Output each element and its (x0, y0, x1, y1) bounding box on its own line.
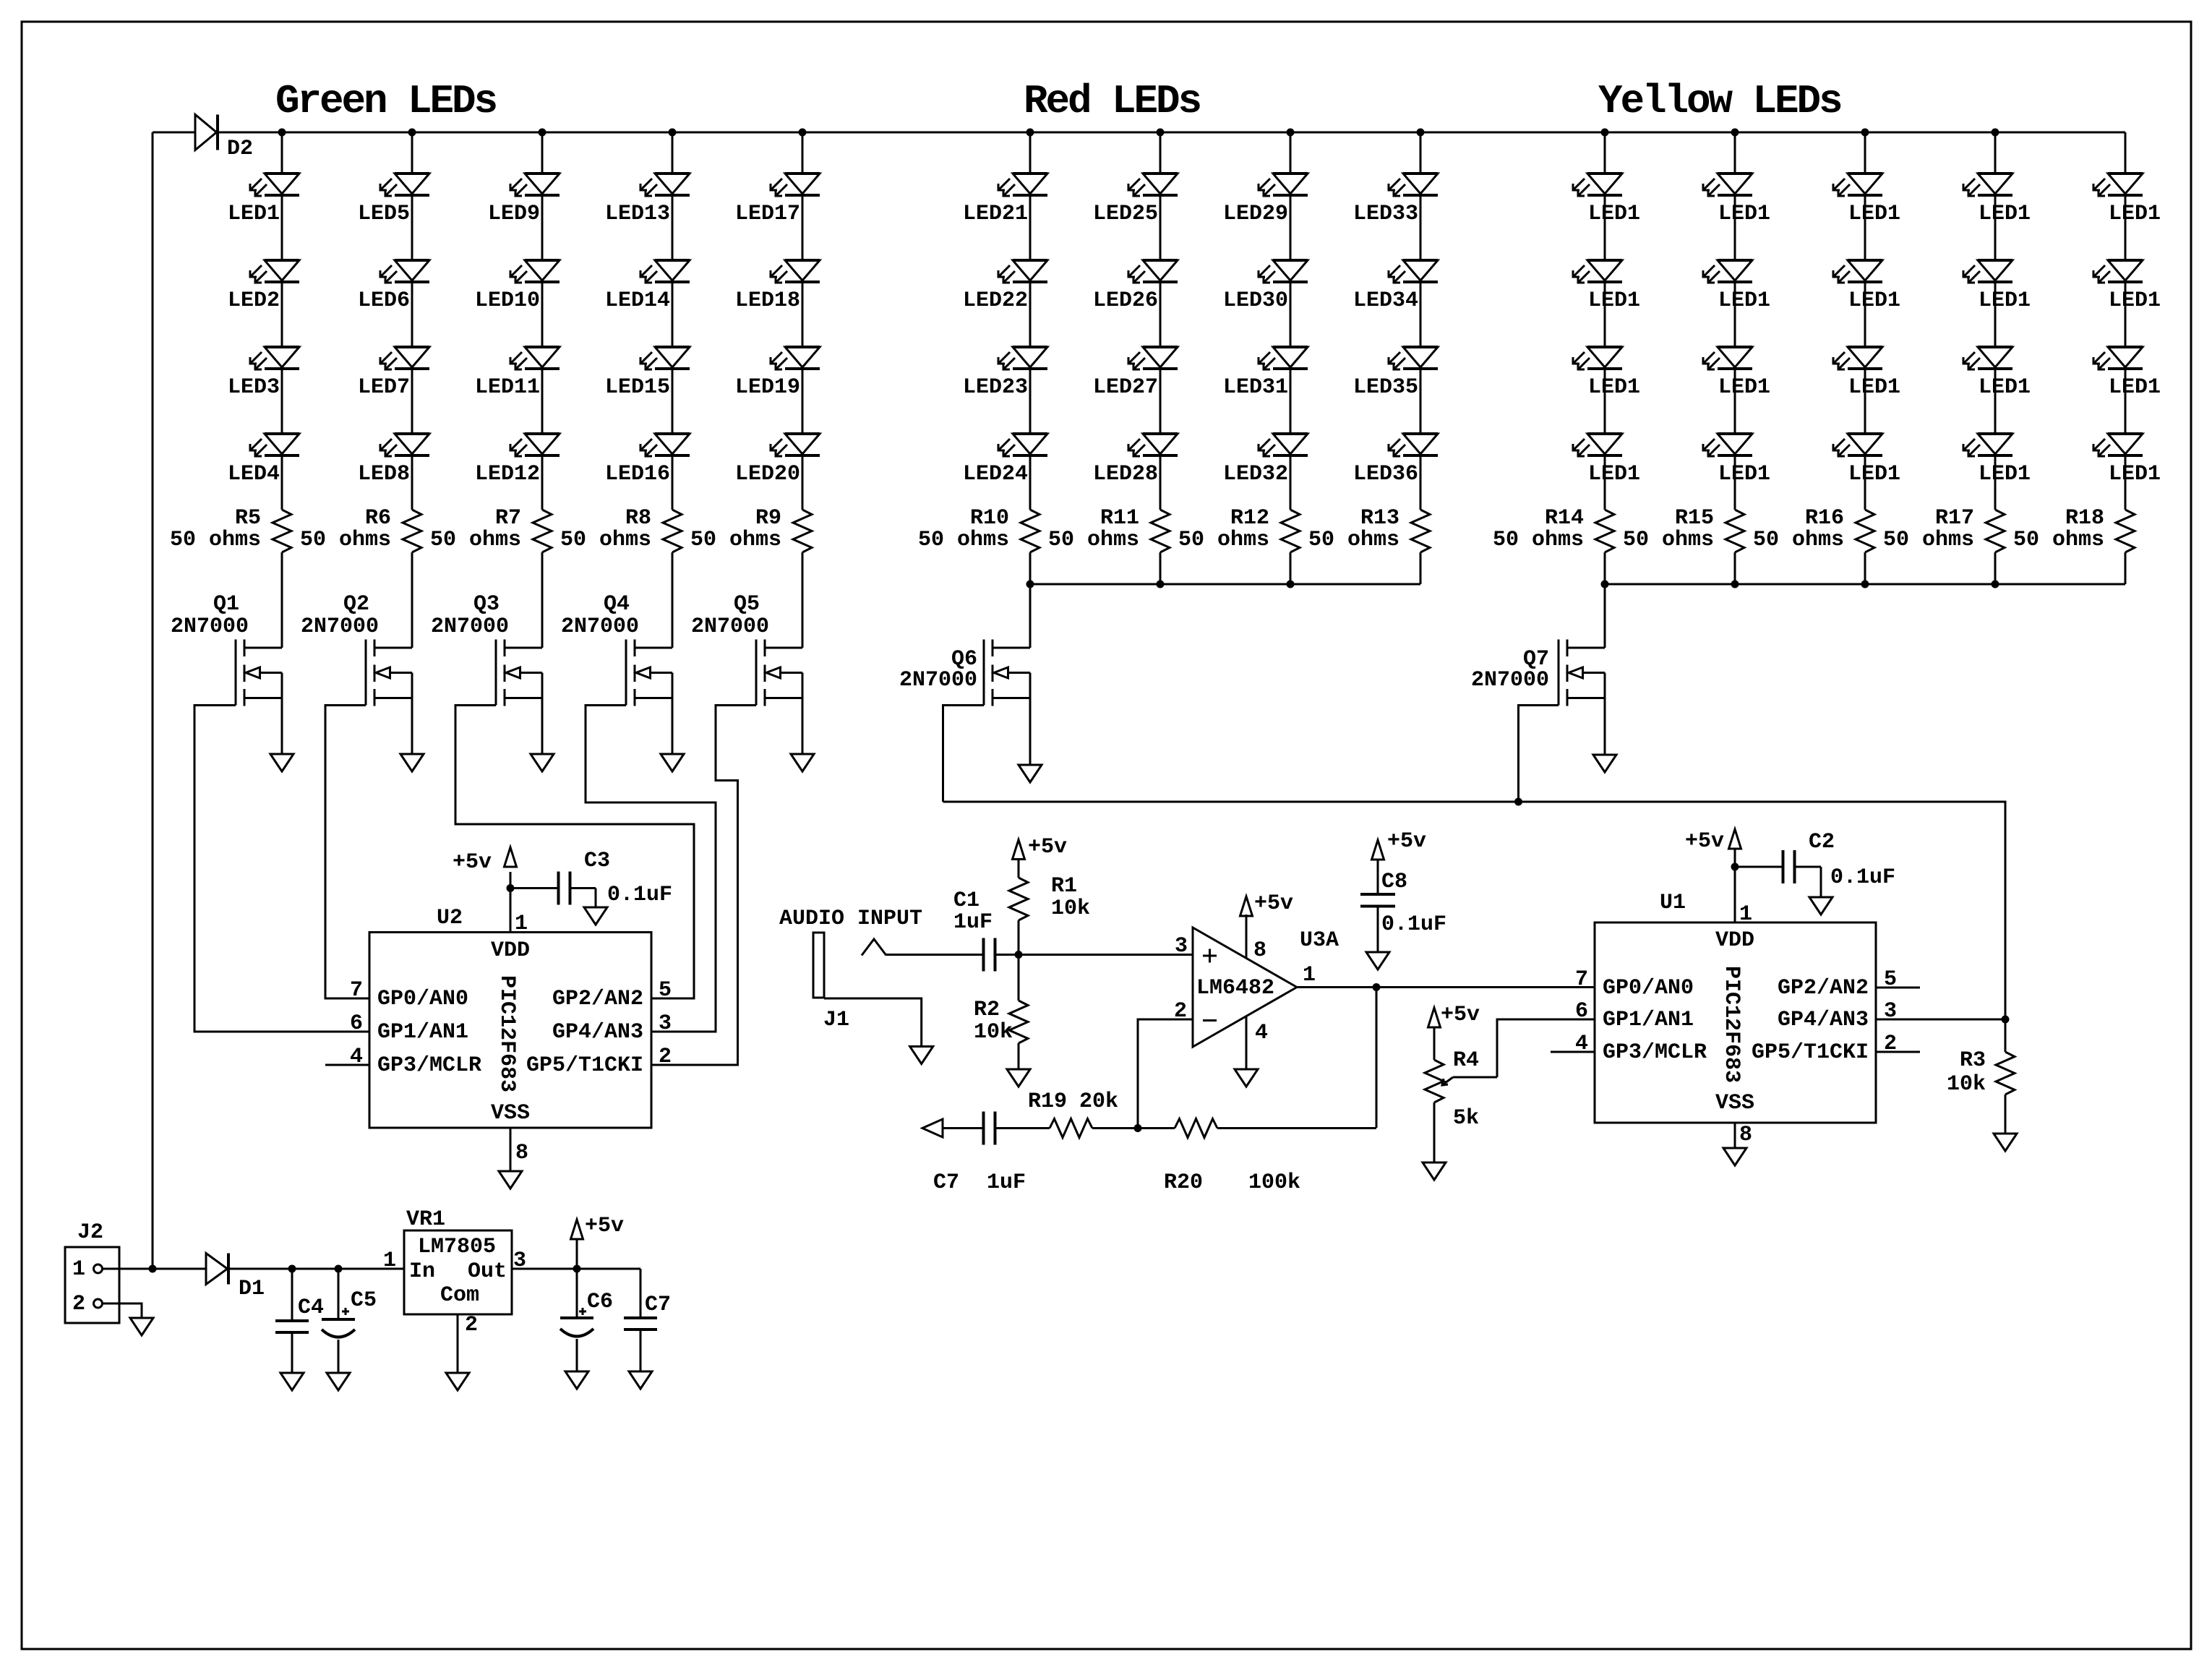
svg-text:50 ohms: 50 ohms (430, 528, 521, 552)
svg-text:LED1: LED1 (1848, 202, 1900, 226)
LED LED1 (1573, 260, 1640, 313)
LED LED1 (1833, 347, 1900, 400)
junction dot U1 VDD (1731, 863, 1739, 871)
ground under C6 (565, 1371, 588, 1389)
LED LED27 (1093, 347, 1178, 400)
resistor R9 (690, 506, 812, 552)
LED LED34 (1353, 260, 1438, 313)
svg-text:2: 2 (659, 1045, 672, 1069)
svg-text:GP5/T1CKI: GP5/T1CKI (1752, 1040, 1869, 1065)
svg-text:LED22: LED22 (963, 288, 1028, 313)
svg-text:Com: Com (440, 1283, 479, 1308)
svg-text:GP2/AN2: GP2/AN2 (1778, 976, 1869, 1001)
svg-text:R19: R19 (1028, 1089, 1067, 1114)
ground under Q2 (400, 754, 424, 771)
svg-text:2N7000: 2N7000 (691, 615, 769, 639)
svg-text:3: 3 (659, 1011, 672, 1036)
svg-text:R11: R11 (1100, 506, 1139, 531)
ground under Q4 (661, 754, 684, 771)
LED LED1 (1703, 347, 1770, 400)
ground under Q6 (1019, 765, 1042, 782)
svg-text:LED34: LED34 (1353, 288, 1418, 313)
wire yellow LED column 1 (1604, 132, 1606, 584)
resistor R17 (1883, 506, 2005, 552)
svg-text:R7: R7 (495, 506, 521, 531)
resistor R10 (918, 506, 1039, 552)
svg-text:50 ohms: 50 ohms (2013, 528, 2104, 552)
ground under U2 (499, 1171, 522, 1189)
svg-text:R12: R12 (1230, 506, 1269, 531)
svg-text:1: 1 (383, 1249, 396, 1273)
svg-text:LED1: LED1 (1848, 375, 1900, 400)
resistor R12 (1178, 506, 1300, 552)
svg-text:LED20: LED20 (735, 462, 800, 487)
svg-text:LED31: LED31 (1223, 375, 1288, 400)
LED LED9 (488, 174, 560, 226)
wire VR1 Out (512, 1268, 640, 1270)
svg-text:LED1: LED1 (1588, 288, 1640, 313)
LED LED1 (1833, 174, 1900, 226)
transistor Q4 2N7000 (561, 592, 672, 754)
svg-text:R13: R13 (1360, 506, 1399, 531)
net arrow C7 feedback (922, 1119, 943, 1137)
svg-text:LED21: LED21 (963, 202, 1028, 226)
wire red LED column 1 (1029, 132, 1032, 584)
wire green LED column 5 (802, 132, 804, 648)
resistor R15 (1623, 506, 1744, 552)
svg-text:LED10: LED10 (475, 288, 540, 313)
svg-text:LED3: LED3 (228, 375, 280, 400)
wire Q1 gate to U2 pin 6 (194, 706, 369, 1032)
svg-text:2N7000: 2N7000 (1471, 668, 1549, 693)
svg-text:PIC12F683: PIC12F683 (1719, 966, 1744, 1083)
svg-text:100k: 100k (1248, 1170, 1300, 1195)
wire U2 pin 8 VSS (510, 1128, 512, 1171)
svg-text:LED26: LED26 (1093, 288, 1158, 313)
wire C1 to op-amp pin 3 (995, 954, 1193, 956)
svg-text:8: 8 (1253, 938, 1266, 963)
wire op-amp output to U1 pin 7 (1297, 986, 1595, 988)
svg-text:R9: R9 (755, 506, 781, 531)
svg-text:LED1: LED1 (1979, 375, 2031, 400)
LED LED3 (228, 347, 299, 400)
svg-text:+5v: +5v (453, 850, 492, 875)
svg-text:LED1: LED1 (1588, 375, 1640, 400)
svg-text:Q1: Q1 (213, 592, 239, 617)
svg-text:GP2/AN2: GP2/AN2 (552, 987, 643, 1011)
svg-text:R4: R4 (1453, 1048, 1479, 1073)
svg-text:5k: 5k (1453, 1106, 1479, 1131)
LED LED1 (1833, 260, 1900, 313)
LED LED36 (1353, 434, 1438, 487)
LED LED35 (1353, 347, 1438, 400)
svg-text:GP3/MCLR: GP3/MCLR (377, 1053, 481, 1078)
LED LED1 (1703, 260, 1770, 313)
svg-text:LED33: LED33 (1353, 202, 1418, 226)
svg-text:LED1: LED1 (1848, 288, 1900, 313)
wire U1 pin 8 VSS (1734, 1123, 1736, 1148)
LED LED22 (963, 260, 1047, 313)
wire red LED column 3 (1290, 132, 1292, 584)
LED LED6 (358, 260, 429, 313)
svg-text:7: 7 (350, 978, 363, 1003)
svg-text:1: 1 (72, 1257, 85, 1282)
junction dots on top bus (278, 129, 1999, 137)
LED LED25 (1093, 174, 1178, 226)
svg-text:GP1/AN1: GP1/AN1 (1603, 1008, 1694, 1032)
resistor R14 (1493, 506, 1614, 552)
svg-text:LED11: LED11 (475, 375, 540, 400)
svg-text:2N7000: 2N7000 (171, 615, 249, 639)
connector J2 (65, 1220, 119, 1323)
junction dot op-amp output (1373, 983, 1381, 991)
wire yellow LED column 4 (1994, 132, 1997, 584)
svg-text:LED1: LED1 (1979, 288, 2031, 313)
wire D1 to VR1 In (228, 1268, 404, 1270)
svg-text:LED1: LED1 (2109, 288, 2161, 313)
svg-text:In: In (409, 1259, 435, 1284)
svg-text:D2: D2 (227, 137, 253, 161)
svg-text:LED12: LED12 (475, 462, 540, 487)
svg-text:LED23: LED23 (963, 375, 1028, 400)
svg-text:LED1: LED1 (1718, 375, 1770, 400)
svg-text:2N7000: 2N7000 (561, 615, 639, 639)
ground under C7 (629, 1371, 652, 1389)
svg-text:U3A: U3A (1300, 928, 1339, 953)
wire op-amp feedback drop (1376, 988, 1378, 1129)
resistor R16 (1753, 506, 1874, 552)
svg-text:LED1: LED1 (1588, 462, 1640, 487)
LED LED33 (1353, 174, 1438, 226)
svg-text:2N7000: 2N7000 (431, 615, 509, 639)
LED LED2 (228, 260, 299, 313)
LED LED26 (1093, 260, 1178, 313)
svg-text:U1: U1 (1660, 891, 1686, 915)
svg-text:1: 1 (1303, 963, 1316, 988)
svg-text:VDD: VDD (1715, 928, 1754, 953)
resistor R6 (300, 506, 421, 552)
svg-text:Q3: Q3 (473, 592, 500, 617)
svg-text:LED1: LED1 (1979, 202, 2031, 226)
svg-text:LED1: LED1 (1588, 202, 1640, 226)
ground under C2 (1809, 897, 1832, 915)
svg-text:LED1: LED1 (1848, 462, 1900, 487)
resistor R19 20k (1028, 1089, 1118, 1138)
ground under U1 (1723, 1148, 1746, 1165)
LED LED19 (735, 347, 820, 400)
svg-text:20k: 20k (1079, 1089, 1118, 1114)
junction dot feedback (1134, 1124, 1142, 1132)
svg-text:+5v: +5v (1441, 1003, 1480, 1027)
wire Q4 gate to U2 pin 3 (586, 706, 716, 1032)
svg-text:LED25: LED25 (1093, 202, 1158, 226)
junction dot Q7 gate (1514, 798, 1522, 806)
LED LED28 (1093, 434, 1178, 487)
LED LED8 (358, 434, 429, 487)
LED LED1 (228, 174, 299, 226)
svg-text:1uF: 1uF (953, 910, 993, 935)
ground under Q5 (791, 754, 814, 771)
svg-text:LED14: LED14 (605, 288, 670, 313)
resistor R11 (1048, 506, 1170, 552)
svg-text:50 ohms: 50 ohms (918, 528, 1009, 552)
ground under R4 (1423, 1162, 1446, 1180)
transistor Q5 2N7000 (691, 592, 802, 754)
svg-text:2N7000: 2N7000 (301, 615, 379, 639)
svg-text:4: 4 (1255, 1021, 1268, 1045)
wire junction to op-amp pin 2 (1138, 1019, 1193, 1129)
resistor R20 100k (1164, 1119, 1300, 1196)
LED LED4 (228, 434, 299, 487)
wire U2 pin 4 stub (325, 1064, 369, 1066)
wire Q3 gate to U2 pin 5 (455, 706, 694, 999)
svg-text:C8: C8 (1381, 870, 1407, 894)
junction dot left bus at J2 (149, 1265, 157, 1273)
wire U1 pin 3 (1876, 1019, 2005, 1021)
svg-text:GP0/AN0: GP0/AN0 (377, 987, 468, 1011)
wire Q5 gate to U2 pin 2 (651, 706, 756, 1066)
ground under VR1 (446, 1373, 469, 1390)
svg-text:+5v: +5v (1254, 891, 1293, 916)
wire green LED column 2 (411, 132, 413, 648)
wire red LED column 2 (1159, 132, 1162, 584)
wire C7 to R19 (995, 1127, 1050, 1129)
wire Q2 gate to U2 pin 7 (325, 706, 369, 999)
svg-text:LED36: LED36 (1353, 462, 1418, 487)
svg-text:2: 2 (465, 1313, 478, 1337)
svg-text:0.1uF: 0.1uF (1381, 912, 1446, 937)
jack J1 (813, 933, 922, 1047)
svg-text:LED1: LED1 (228, 202, 280, 226)
wire top supply bus (153, 132, 2125, 134)
svg-text:R16: R16 (1805, 506, 1844, 531)
svg-text:C2: C2 (1809, 830, 1835, 855)
LED LED16 (605, 434, 690, 487)
svg-text:LED7: LED7 (358, 375, 410, 400)
wire yellow source bus (1605, 583, 2125, 586)
svg-text:C1: C1 (953, 888, 979, 913)
ground under op-amp (1235, 1069, 1258, 1087)
capacitor C6 (polarized) (560, 1269, 613, 1371)
svg-text:1uF: 1uF (987, 1170, 1026, 1195)
junction dot C1 R1 R2 (1015, 951, 1023, 959)
svg-text:VSS: VSS (1715, 1091, 1754, 1116)
svg-text:LED24: LED24 (963, 462, 1028, 487)
LED LED18 (735, 260, 820, 313)
svg-text:10k: 10k (974, 1020, 1013, 1045)
svg-text:4: 4 (350, 1045, 363, 1069)
resistor R2 10k (974, 955, 1028, 1070)
wire green LED column 1 (281, 132, 283, 648)
wire audio signal to C1 (886, 954, 984, 956)
svg-text:50 ohms: 50 ohms (1623, 528, 1714, 552)
junction dot U2 VDD (507, 884, 515, 892)
IC U2 PIC12F683 box (369, 906, 651, 1128)
svg-text:R2: R2 (974, 998, 1000, 1022)
op-amp pin numbers (1174, 934, 1316, 1045)
junction dot +5v out (573, 1265, 581, 1273)
svg-text:LED1: LED1 (2109, 202, 2161, 226)
LED LED1 (1963, 347, 2031, 400)
+5v at VR1 out (571, 1214, 625, 1269)
wire op-amp pin 8 to +5v (1246, 915, 1248, 958)
svg-text:R15: R15 (1675, 506, 1714, 531)
svg-text:LED8: LED8 (358, 462, 410, 487)
svg-text:GP4/AN3: GP4/AN3 (1778, 1008, 1869, 1032)
svg-text:C3: C3 (584, 849, 610, 873)
svg-text:LED15: LED15 (605, 375, 670, 400)
capacitor C4 (275, 1269, 324, 1373)
capacitor C3 0.1uF (510, 849, 672, 907)
LED LED11 (475, 347, 560, 400)
svg-text:50 ohms: 50 ohms (1178, 528, 1269, 552)
wire gate signal bus to U1 pin 3 node (943, 802, 2006, 1019)
LED LED13 (605, 174, 690, 226)
svg-text:1: 1 (515, 912, 528, 936)
LED LED7 (358, 347, 429, 400)
LED LED1 (1573, 174, 1640, 226)
ground under Q3 (531, 754, 554, 771)
svg-text:C7: C7 (645, 1293, 671, 1317)
ground under C4 (280, 1373, 304, 1390)
svg-text:50 ohms: 50 ohms (690, 528, 781, 552)
svg-text:Q2: Q2 (343, 592, 369, 617)
svg-text:VDD: VDD (491, 938, 530, 963)
svg-text:LED1: LED1 (1718, 288, 1770, 313)
ground under Q1 (270, 754, 293, 771)
svg-text:50 ohms: 50 ohms (560, 528, 651, 552)
wire VR1 Com to ground (457, 1314, 459, 1373)
svg-text:R14: R14 (1545, 506, 1584, 531)
LED LED10 (475, 260, 560, 313)
svg-text:LED4: LED4 (228, 462, 280, 487)
ground under Q7 (1593, 755, 1616, 772)
svg-text:GP1/AN1: GP1/AN1 (377, 1020, 468, 1045)
svg-text:LED1: LED1 (1718, 202, 1770, 226)
ground under R2 (1007, 1069, 1030, 1087)
svg-text:LM6482: LM6482 (1196, 976, 1274, 1001)
wire green LED column 3 (541, 132, 544, 648)
svg-text:+5v: +5v (1685, 829, 1724, 854)
svg-text:Yellow LEDs: Yellow LEDs (1598, 78, 1841, 124)
svg-text:1: 1 (1739, 902, 1752, 927)
svg-text:VSS: VSS (491, 1101, 530, 1126)
svg-text:Out: Out (468, 1259, 507, 1284)
LED LED20 (735, 434, 820, 487)
LED LED1 (1703, 174, 1770, 226)
svg-text:LED30: LED30 (1223, 288, 1288, 313)
svg-text:8: 8 (1739, 1123, 1752, 1147)
wire J2 pin 1 (103, 1268, 207, 1270)
resistor R13 (1308, 506, 1430, 552)
svg-text:LED1: LED1 (1979, 462, 2031, 487)
svg-text:LED1: LED1 (1718, 462, 1770, 487)
LED LED24 (963, 434, 1047, 487)
LED LED1 (1833, 434, 1900, 487)
svg-text:GP0/AN0: GP0/AN0 (1603, 976, 1694, 1001)
LED LED1 (1573, 347, 1640, 400)
svg-text:GP3/MCLR: GP3/MCLR (1603, 1040, 1707, 1065)
svg-text:GP4/AN3: GP4/AN3 (552, 1020, 643, 1045)
svg-text:50 ohms: 50 ohms (1883, 528, 1974, 552)
svg-text:C7: C7 (933, 1170, 959, 1195)
svg-text:LED35: LED35 (1353, 375, 1418, 400)
svg-text:VR1: VR1 (406, 1207, 445, 1232)
LED LED1 (1963, 434, 2031, 487)
op-amp U3A LM6482 (1193, 928, 1339, 1047)
svg-text:R1: R1 (1051, 874, 1077, 899)
svg-text:0.1uF: 0.1uF (607, 883, 672, 907)
svg-text:LED2: LED2 (228, 288, 280, 313)
LED LED17 (735, 174, 820, 226)
svg-text:C5: C5 (351, 1288, 377, 1313)
svg-text:8: 8 (515, 1141, 528, 1165)
junction dots red bus (1026, 581, 1295, 588)
capacitor C8 0.1uF (1360, 860, 1446, 952)
wire left power bus (152, 132, 154, 1269)
transistor Q1 2N7000 (171, 592, 282, 754)
resistor R18 (2013, 506, 2135, 552)
LED LED1 (2093, 347, 2161, 400)
svg-text:2N7000: 2N7000 (899, 668, 977, 693)
wire R19 to junction (1092, 1127, 1138, 1129)
capacitor C7 1uF (feedback) (933, 1112, 1026, 1196)
ground under C5 (327, 1373, 350, 1390)
LED LED12 (475, 434, 560, 487)
potentiometer R4 5k (1425, 1027, 1497, 1162)
LED LED1 (2093, 434, 2161, 487)
resistor R1 10k (1009, 860, 1090, 955)
ground under J2 pin 2 (130, 1318, 153, 1335)
wire U1 pin 2 stub (1876, 1051, 1920, 1053)
resistor R5 (170, 506, 291, 552)
svg-text:U2: U2 (437, 906, 463, 930)
capacitor C5 (polarized) (322, 1269, 377, 1373)
svg-text:LED5: LED5 (358, 202, 410, 226)
svg-text:LED27: LED27 (1093, 375, 1158, 400)
junction dot C5 (335, 1265, 343, 1273)
LED LED14 (605, 260, 690, 313)
transistor Q7 2N7000 (1471, 584, 1605, 755)
wire yellow LED column 2 (1734, 132, 1736, 584)
svg-text:50 ohms: 50 ohms (1048, 528, 1139, 552)
svg-text:+5v: +5v (1387, 829, 1426, 854)
wire op-amp pin 4 to ground (1246, 1016, 1248, 1069)
transistor Q3 2N7000 (431, 592, 542, 754)
svg-text:PIC12F683: PIC12F683 (494, 975, 519, 1092)
ground under C8 (1366, 952, 1389, 969)
svg-text:LED32: LED32 (1223, 462, 1288, 487)
LED LED1 (1963, 174, 2031, 226)
svg-text:50 ohms: 50 ohms (1308, 528, 1399, 552)
+5v at R1 (1013, 835, 1068, 860)
svg-text:LED29: LED29 (1223, 202, 1288, 226)
LED LED15 (605, 347, 690, 400)
svg-text:+5v: +5v (1028, 835, 1067, 860)
junction dot U1 pin 3 (2002, 1016, 2010, 1024)
svg-text:50 ohms: 50 ohms (300, 528, 391, 552)
wire U1 pin 1 VDD (1734, 848, 1736, 922)
svg-text:R8: R8 (625, 506, 651, 531)
LED LED29 (1223, 174, 1308, 226)
svg-text:2: 2 (72, 1292, 85, 1316)
regulator VR1 LM7805 (383, 1207, 526, 1337)
resistor R3 10k (1947, 1019, 2015, 1134)
transistor Q2 2N7000 (301, 592, 412, 754)
+5v at C8 (1372, 829, 1427, 860)
svg-text:R20: R20 (1164, 1170, 1203, 1195)
svg-text:50 ohms: 50 ohms (1753, 528, 1844, 552)
